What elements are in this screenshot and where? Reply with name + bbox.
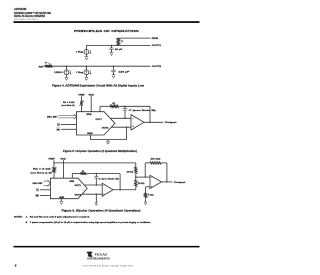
svg-text:RFB: RFB — [152, 38, 159, 40]
svg-text:5 kΩ: 5 kΩ — [148, 195, 154, 197]
svg-text:VREF: VREF — [48, 158, 55, 160]
svg-text:VREF: VREF — [78, 94, 85, 96]
svg-text:Output: Output — [174, 181, 186, 184]
svg-text:NOTES:: NOTES: — [14, 216, 23, 218]
svg-text:OUT2: OUT2 — [75, 194, 81, 196]
svg-text:DB0–DB7: DB0–DB7 — [47, 116, 58, 118]
svg-text:DB0–DB7: DB0–DB7 — [33, 183, 43, 185]
svg-text:R2: R2 — [82, 171, 84, 173]
svg-text:RFB: RFB — [70, 181, 75, 183]
svg-text:R1 = 2 kΩ: R1 = 2 kΩ — [63, 102, 75, 104]
svg-text:1/256 I: 1/256 I — [54, 72, 64, 74]
svg-text:OUT2: OUT2 — [152, 66, 163, 68]
svg-text:OUT1: OUT1 — [152, 45, 163, 47]
svg-text:AD7524M: AD7524M — [14, 7, 27, 11]
svg-text:R1 = 2 kΩ: R1 = 2 kΩ — [33, 169, 51, 171]
svg-text:R1 and R2 used only if gain ad: R1 and R2 used only if gain adjustment i… — [30, 215, 91, 218]
svg-text:(see Note A): (see Note A) — [62, 104, 75, 107]
svg-text:R2: R2 — [112, 103, 114, 105]
svg-text:Figure 6. Bipolar Operation (4: Figure 6. Bipolar Operation (4-Quadrant … — [62, 208, 141, 212]
svg-text:20 kΩ: 20 kΩ — [138, 183, 145, 185]
svg-text:Output: Output — [165, 121, 177, 124]
svg-text:30 pF: 30 pF — [115, 49, 124, 51]
svg-text:GND: GND — [87, 133, 93, 135]
svg-text:DIGITAL-TO-ANALOG CONVERTER: DIGITAL-TO-ANALOG CONVERTER — [14, 14, 45, 18]
svg-text:REF: REF — [39, 66, 44, 68]
svg-text:C (see Note B): C (see Note B) — [129, 109, 157, 112]
svg-text:(see Notes A, B): (see Notes A, B) — [31, 172, 53, 175]
svg-text:ADVANCED LinCMOS™ 8-BIT MULTIP: ADVANCED LinCMOS™ 8-BIT MULTIPLYING — [14, 11, 51, 15]
svg-text:TEXAS: TEXAS — [95, 252, 108, 256]
svg-text:PRINCIPLES OF OPERATION: PRINCIPLES OF OPERATION — [74, 29, 139, 33]
svg-text:OUT1: OUT1 — [96, 119, 102, 121]
svg-text:8: 8 — [15, 263, 17, 267]
svg-text:GND: GND — [59, 197, 65, 199]
svg-text:VDD: VDD — [88, 94, 94, 96]
svg-text:VDD: VDD — [60, 158, 66, 160]
svg-text:OUT2: OUT2 — [102, 128, 108, 130]
svg-text:C phase compensation (10 pF to: C phase compensation (10 pF to 15 pF) is… — [30, 221, 152, 224]
svg-text:C (see Note B): C (see Note B) — [99, 177, 120, 180]
svg-text:120 pF: 120 pF — [118, 71, 130, 73]
svg-text:INSTRUMENTS: INSTRUMENTS — [87, 258, 110, 261]
svg-text:20 kΩ: 20 kΩ — [151, 159, 162, 161]
svg-text:Figure 5. Unipolar Operation (: Figure 5. Unipolar Operation (2-Quadrant… — [63, 149, 137, 153]
svg-text:RFB: RFB — [87, 114, 93, 116]
svg-text:Figure 4. AD7524M Equivalent C: Figure 4. AD7524M Equivalent Circuit Wit… — [52, 84, 144, 88]
svg-text:20 kΩ: 20 kΩ — [127, 172, 134, 174]
svg-text:OUT1: OUT1 — [75, 185, 81, 187]
